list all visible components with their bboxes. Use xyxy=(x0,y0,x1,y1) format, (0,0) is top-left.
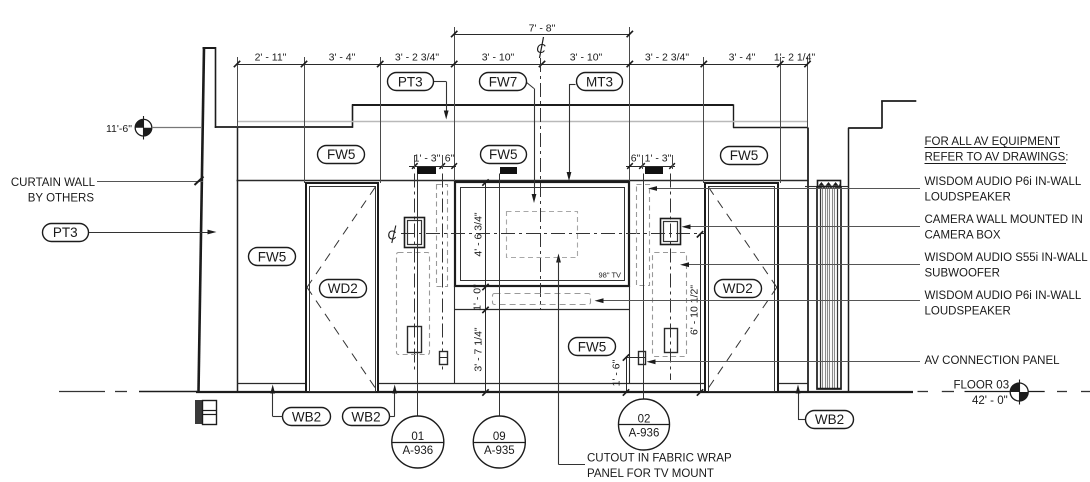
svg-text:CAMERA WALL MOUNTED IN: CAMERA WALL MOUNTED IN xyxy=(925,214,1083,226)
svg-text:6": 6" xyxy=(445,153,455,165)
door WD2 left frame xyxy=(306,183,378,392)
svg-text:3' - 10": 3' - 10" xyxy=(482,52,515,64)
svg-text:3' - 7 1/4": 3' - 7 1/4" xyxy=(473,327,485,372)
dimension text 3' - 2 3/4" xyxy=(645,52,690,64)
svg-text:WB2: WB2 xyxy=(292,410,321,425)
curtain wall mullion (slanted edge) xyxy=(199,47,205,392)
AV panel dimension 1ft6 xyxy=(623,354,638,395)
WB2 second leader xyxy=(390,385,398,417)
blocking bar left xyxy=(417,167,436,174)
tag WB2 second xyxy=(343,408,390,426)
leader AV connection panel xyxy=(647,359,921,364)
WB2 right leader xyxy=(796,385,805,420)
camera dimension 6ft10-1/2 xyxy=(697,231,703,396)
PT3 far left leader xyxy=(89,230,217,235)
callout 09 A-935 xyxy=(473,416,525,468)
svg-text:11'-6": 11'-6" xyxy=(106,123,132,135)
svg-text:PT3: PT3 xyxy=(398,75,423,90)
svg-text:02: 02 xyxy=(638,414,651,426)
datum 11ft6 leader xyxy=(152,127,201,129)
svg-text:SUBWOOFER: SUBWOOFER xyxy=(925,268,1000,280)
floor line dashes left xyxy=(59,391,127,393)
subwoofer S55i right dashed xyxy=(653,253,687,357)
parapet right segment xyxy=(733,127,808,129)
fabric panel seam below TV xyxy=(455,309,630,311)
right step vertical long xyxy=(848,128,850,392)
dimension text 3' - 4" xyxy=(329,52,356,64)
tag MT3 xyxy=(577,73,623,91)
svg-text:1' - 0": 1' - 0" xyxy=(472,284,484,311)
partition top track xyxy=(818,181,841,187)
camera box left xyxy=(405,218,425,248)
leader loudspeaker bottom xyxy=(595,298,921,303)
floor line solid xyxy=(139,391,913,394)
blocking bar center xyxy=(500,167,517,174)
svg-text:WD2: WD2 xyxy=(723,281,753,296)
partition mount lines xyxy=(805,186,849,188)
svg-text:AV CONNECTION PANEL: AV CONNECTION PANEL xyxy=(925,355,1061,367)
dimension text 4ft6-3/4 rotated xyxy=(473,212,485,257)
svg-text:FW7: FW7 xyxy=(489,75,518,90)
svg-text:C: C xyxy=(388,229,397,243)
svg-text:42' - 0": 42' - 0" xyxy=(972,395,1008,407)
leader to detail 02 xyxy=(643,174,645,400)
floor datum symbol xyxy=(1010,380,1028,405)
loudspeaker P6i left dashed xyxy=(437,185,448,287)
dimension text 3' - 10" xyxy=(570,52,603,64)
dimension extension lines xyxy=(238,27,808,183)
parapet left segment xyxy=(215,126,353,128)
svg-text:MT3: MT3 xyxy=(586,75,613,90)
wall band line xyxy=(237,180,808,182)
camera box right xyxy=(661,219,681,245)
dimension text 3' - 2 3/4" xyxy=(395,52,440,64)
svg-text:WISDOM AUDIO P6i IN-WALL: WISDOM AUDIO P6i IN-WALL xyxy=(925,290,1082,302)
cutout leader with up arrow xyxy=(556,254,585,465)
PT3 top leader xyxy=(434,82,449,120)
svg-text:CURTAIN WALL: CURTAIN WALL xyxy=(11,177,96,189)
svg-text:A-936: A-936 xyxy=(629,427,660,439)
leader loudspeaker top xyxy=(648,186,920,191)
wall right edge xyxy=(807,128,809,392)
svg-text:FW5: FW5 xyxy=(730,148,759,163)
leader to detail 09 xyxy=(499,174,501,417)
dimension text 1ft0 rotated xyxy=(472,284,484,311)
svg-text:WB2: WB2 xyxy=(815,412,844,427)
svg-text:1' - 3": 1' - 3" xyxy=(414,153,441,165)
floor line dashes right xyxy=(918,391,1090,393)
callout 01 A-936 xyxy=(392,416,444,468)
WB2 first leader xyxy=(270,385,283,417)
dimension text 3' - 4" xyxy=(729,52,756,64)
FW7 leader xyxy=(526,82,536,203)
svg-text:4' - 6 3/4": 4' - 6 3/4" xyxy=(473,212,485,257)
tag WD2 right xyxy=(715,280,762,298)
main dimension ticks xyxy=(234,61,811,67)
MT3 leader xyxy=(567,84,576,181)
svg-text:FLOOR 03: FLOOR 03 xyxy=(954,380,1010,392)
note AV connection panel xyxy=(925,355,1061,367)
callout 02 A-936 xyxy=(619,399,670,450)
soundbar dashed box xyxy=(493,294,591,305)
svg-text:09: 09 xyxy=(493,431,506,443)
centerline symbol top xyxy=(536,37,546,58)
subwoofer inner box right xyxy=(665,329,678,353)
leader camera xyxy=(682,224,921,229)
dimension text 6ft10-1/2 rotated xyxy=(689,285,701,335)
camera centerline right xyxy=(670,174,672,381)
note subwoofer xyxy=(925,252,1089,280)
svg-text:WB2: WB2 xyxy=(351,410,380,425)
upper dimension ticks xyxy=(451,31,633,37)
parapet step right xyxy=(733,104,735,128)
tag FW5 band center xyxy=(481,146,527,164)
subwoofer inner box left xyxy=(408,327,422,353)
small dimension right xyxy=(626,153,675,170)
svg-text:6": 6" xyxy=(631,153,641,165)
svg-text:3' - 10": 3' - 10" xyxy=(570,52,603,64)
svg-text:C: C xyxy=(536,41,546,56)
svg-text:PT3: PT3 xyxy=(53,225,78,240)
floor datum text xyxy=(954,380,1045,407)
svg-text:A-935: A-935 xyxy=(484,445,515,457)
dimension text 1ft6 rotated xyxy=(611,359,623,386)
note loudspeaker bottom xyxy=(925,290,1082,318)
svg-text:A-936: A-936 xyxy=(402,445,433,457)
svg-text:LOUDSPEAKER: LOUDSPEAKER xyxy=(925,192,1011,204)
gray reveal line xyxy=(237,121,807,123)
svg-text:CAMERA BOX: CAMERA BOX xyxy=(925,230,1001,242)
door WD2 left swing dashes xyxy=(307,185,377,391)
svg-text:WISDOM AUDIO P6i IN-WALL: WISDOM AUDIO P6i IN-WALL xyxy=(925,176,1082,188)
tag WB2 first xyxy=(283,408,331,426)
tag FW5 band left xyxy=(318,146,365,164)
small dimension left xyxy=(409,153,457,170)
svg-text:FW5: FW5 xyxy=(489,147,518,162)
door WD2 right frame xyxy=(705,183,778,392)
door WD2 right swing dashes xyxy=(707,185,777,391)
note loudspeaker top xyxy=(925,176,1082,204)
right step horizontal top xyxy=(881,100,916,102)
svg-text:3' - 2 3/4": 3' - 2 3/4" xyxy=(395,52,440,64)
leader subwoofer xyxy=(680,262,920,267)
right step vertical short xyxy=(881,101,883,129)
tag WD2 left xyxy=(320,280,367,298)
AV connection panel left xyxy=(439,352,448,365)
TV inner frame xyxy=(461,188,625,281)
note curtain wall by others xyxy=(11,177,96,205)
device horizontal centerline xyxy=(401,233,705,235)
tag FW7 xyxy=(480,73,527,91)
TV label xyxy=(599,271,622,280)
svg-text:98" TV: 98" TV xyxy=(599,271,622,280)
svg-text:FW5: FW5 xyxy=(578,339,607,354)
parapet top center xyxy=(352,104,733,106)
svg-text:1' - 6": 1' - 6" xyxy=(611,359,623,386)
datum 11ft6 text xyxy=(106,123,132,135)
dimension text 1'- 2 1/4" xyxy=(774,52,816,64)
tag PT3 top xyxy=(388,73,434,91)
dimension text 3' - 10" xyxy=(482,52,515,64)
svg-text:2' - 11": 2' - 11" xyxy=(255,52,287,64)
tag FW5 band right xyxy=(721,147,768,165)
slab edge detail below floor xyxy=(195,400,217,425)
svg-text:LOUDSPEAKER: LOUDSPEAKER xyxy=(925,306,1011,318)
main dimension line xyxy=(237,64,808,66)
centerline symbol at left camera xyxy=(388,226,397,244)
curtain wall leader with tick xyxy=(97,177,204,186)
dimension text 2' - 11" xyxy=(255,52,287,64)
dimension text 3ft7-1/4 rotated xyxy=(473,327,485,372)
subwoofer S55i left dashed xyxy=(397,253,430,355)
tag FW5 wall left xyxy=(249,248,296,266)
svg-text:3' - 4": 3' - 4" xyxy=(729,52,756,64)
svg-text:BY OTHERS: BY OTHERS xyxy=(28,193,95,205)
partition panels xyxy=(817,187,841,389)
fabric panel side seams xyxy=(455,286,630,384)
wall base line segments xyxy=(237,383,808,385)
right step horizontal low xyxy=(848,127,882,129)
svg-text:1' - 3": 1' - 3" xyxy=(645,153,672,165)
datum 11ft6 symbol xyxy=(135,116,152,140)
svg-text:WD2: WD2 xyxy=(328,281,358,296)
TV outer frame 98in xyxy=(455,182,629,286)
speaker centerline left xyxy=(442,174,444,372)
svg-text:3' - 4": 3' - 4" xyxy=(329,52,356,64)
note camera wall mounted xyxy=(925,214,1083,242)
parapet step left xyxy=(352,104,354,128)
loudspeaker P6i right dashed xyxy=(637,185,650,286)
camera FOV dashed box xyxy=(507,212,578,258)
AV connection panel right xyxy=(638,352,646,365)
upper 7ft8 dimension line xyxy=(454,34,630,36)
note cutout fabric wrap xyxy=(587,453,732,481)
camera centerline left xyxy=(414,174,416,373)
svg-text:7' - 8": 7' - 8" xyxy=(529,23,556,35)
svg-text:6' - 10 1/2": 6' - 10 1/2" xyxy=(689,285,701,335)
TV height dimension line xyxy=(482,179,488,395)
curtain wall column cap xyxy=(203,47,217,128)
svg-text:01: 01 xyxy=(411,431,424,443)
svg-text:WISDOM AUDIO S55i IN-WALL: WISDOM AUDIO S55i IN-WALL xyxy=(925,252,1089,264)
wall left edge xyxy=(237,128,239,392)
tag FW5 below TV xyxy=(569,338,616,356)
dimension text 7ft8 xyxy=(529,23,556,35)
tag WB2 right xyxy=(806,411,854,429)
svg-text:FW5: FW5 xyxy=(327,147,356,162)
svg-text:CUTOUT IN FABRIC WRAP: CUTOUT IN FABRIC WRAP xyxy=(587,453,732,465)
leader to detail 01 xyxy=(417,174,419,417)
svg-text:REFER TO AV DRAWINGS:: REFER TO AV DRAWINGS: xyxy=(925,152,1069,164)
tag PT3 far left xyxy=(43,224,89,242)
svg-text:PANEL FOR TV MOUNT: PANEL FOR TV MOUNT xyxy=(587,468,714,480)
svg-text:FOR ALL AV EQUIPMENT: FOR ALL AV EQUIPMENT xyxy=(925,136,1060,148)
svg-text:3' - 2 3/4": 3' - 2 3/4" xyxy=(645,52,690,64)
svg-text:FW5: FW5 xyxy=(258,250,287,265)
TV vertical centerline xyxy=(540,58,542,310)
note header AV equipment xyxy=(925,136,1069,164)
svg-text:1'- 2 1/4": 1'- 2 1/4" xyxy=(774,52,816,64)
blocking bar right xyxy=(645,167,663,174)
